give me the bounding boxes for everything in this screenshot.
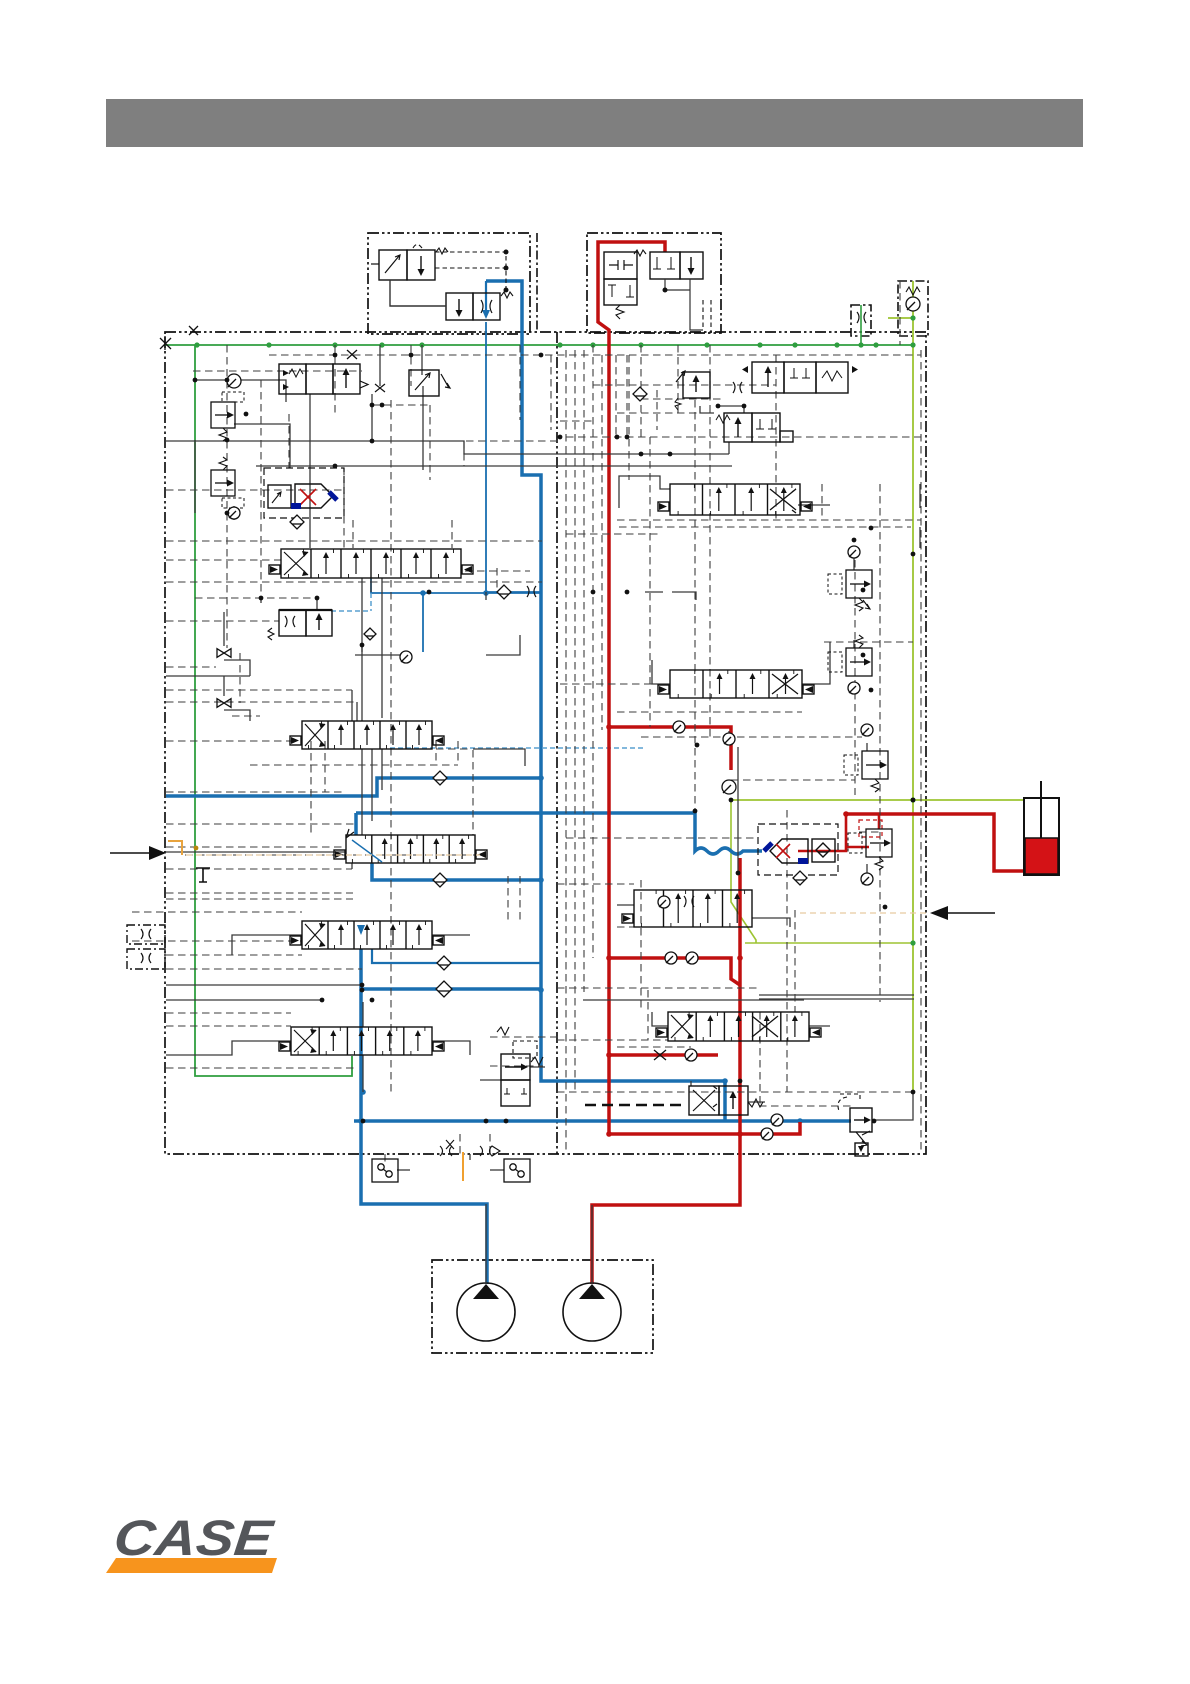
red return manifold bbox=[609, 1122, 800, 1134]
valve bank R2 bbox=[658, 670, 814, 698]
valve V5 comp bbox=[268, 610, 332, 640]
throttle bottom1 bbox=[440, 1140, 454, 1156]
node d junction bbox=[427, 590, 432, 595]
blue line row4a bbox=[361, 949, 487, 1284]
pilot bold dashed SV2 bbox=[585, 1104, 687, 1107]
relief valve RR3 bbox=[844, 751, 888, 792]
check mid1 bbox=[433, 771, 447, 785]
relief valve RT1 bbox=[675, 371, 710, 410]
check row4 red b bbox=[686, 952, 698, 964]
arrow marker right bbox=[948, 912, 995, 914]
wire dashed verticals bbox=[227, 281, 921, 1162]
red tank line bbox=[846, 814, 1024, 871]
blue line row3b bbox=[356, 813, 762, 854]
blue sense line bbox=[486, 322, 541, 592]
cartridge assembly L bbox=[264, 468, 344, 518]
valve bank R1 cross bbox=[770, 489, 796, 513]
blue line row3a bbox=[166, 778, 541, 796]
red cartridge links bbox=[798, 814, 879, 851]
tan dashed right bbox=[800, 912, 926, 914]
wire dashed horizontals bbox=[132, 355, 921, 1106]
check diamond c bbox=[364, 628, 376, 640]
pressure switch PS1 bbox=[372, 1159, 398, 1182]
valve bank R3 bbox=[622, 890, 752, 927]
bowtie cross top bbox=[347, 350, 357, 359]
check circle b1 bbox=[400, 651, 412, 663]
check mid2 bbox=[497, 585, 511, 599]
check on red row2 bbox=[673, 721, 685, 733]
check C row2 bbox=[723, 733, 735, 745]
valve bank R1 bbox=[658, 484, 812, 515]
relief dashed SV1 bbox=[497, 1027, 537, 1058]
small box orifice bbox=[851, 305, 871, 336]
relief valve RR4 bbox=[848, 829, 892, 870]
blue junction dots bbox=[358, 590, 803, 1124]
relief valve RR1 bbox=[828, 570, 872, 611]
check mid4 bbox=[437, 956, 451, 970]
tank body bbox=[1024, 781, 1059, 875]
tee symbol left bbox=[196, 868, 210, 882]
check diamond top bbox=[633, 387, 647, 401]
relief valve RB1 bbox=[838, 1094, 872, 1156]
partition stub box1 bbox=[536, 233, 538, 332]
orifice symbol bbox=[857, 312, 866, 323]
vent mark X2 bbox=[189, 326, 198, 335]
valve bank B2 bbox=[290, 721, 444, 749]
blue bank1 tap bbox=[371, 578, 541, 593]
green orifice stub bbox=[860, 305, 862, 345]
header gray title bar bbox=[106, 99, 1083, 147]
cartridge assembly R bbox=[758, 824, 838, 875]
blue dashed pilot 2 bbox=[390, 747, 646, 749]
blue arrow valve B bbox=[485, 281, 487, 310]
green pilot drop bbox=[731, 800, 913, 943]
small box breather bbox=[898, 281, 928, 336]
valve A pilot box1 bbox=[371, 248, 448, 280]
red main vertical bbox=[592, 858, 740, 1284]
pilot box top-right bbox=[587, 233, 721, 333]
pressure switch PS2 bbox=[504, 1159, 530, 1182]
relief valve RV2 bbox=[211, 457, 235, 496]
svg-text:CASE: CASE bbox=[111, 1510, 277, 1566]
valve bank R2 cross bbox=[772, 674, 798, 694]
blue line row3c bbox=[372, 863, 541, 880]
check mid5 bbox=[436, 981, 452, 997]
green breather line bbox=[888, 281, 913, 345]
breather check bbox=[906, 297, 920, 311]
valve V0 left bbox=[279, 364, 368, 394]
red junction dots bbox=[606, 724, 849, 1137]
valve bank R4 cross bbox=[752, 1016, 778, 1037]
pilot tan line bbox=[168, 841, 182, 855]
node dot grid bbox=[193, 353, 916, 1124]
valve bank B3 bbox=[334, 835, 487, 863]
check CR1 bbox=[848, 546, 860, 558]
port boxes left border bbox=[127, 925, 165, 969]
box2 node dot bbox=[663, 288, 668, 293]
blue return manifold bbox=[354, 1119, 851, 1123]
green rail right vertical bbox=[912, 345, 914, 1092]
blue line row4b bbox=[372, 949, 541, 963]
blue dashed pilot bbox=[331, 593, 371, 611]
orange sensor line bbox=[462, 1152, 464, 1181]
check valve CV1 bbox=[227, 374, 241, 388]
blue arrow bank4 bbox=[357, 925, 365, 935]
valve bank B5 bbox=[279, 1027, 444, 1055]
blue pilot line from box1 bbox=[486, 281, 725, 1121]
check row4 red a bbox=[665, 952, 677, 964]
solenoid valve SV1 bbox=[501, 1054, 530, 1106]
shutoff valve S2 bbox=[217, 699, 231, 708]
green supply rail top bbox=[165, 344, 913, 346]
port symbols left bbox=[141, 929, 151, 963]
red dashed pilot box bbox=[859, 820, 882, 837]
bowtie red row5 bbox=[654, 1050, 666, 1060]
box2 dashes bbox=[703, 300, 711, 332]
check bottom red bbox=[761, 1128, 773, 1140]
valve A dashed links bbox=[413, 245, 506, 291]
vent mark X1 bbox=[160, 336, 171, 350]
relief valve RR2 bbox=[828, 635, 872, 676]
orifice X mark bbox=[375, 384, 385, 392]
valve bank B4 bbox=[290, 921, 444, 949]
green tank return line bbox=[731, 799, 1024, 801]
partition border center bbox=[556, 332, 558, 1154]
red branch row2 bbox=[609, 727, 731, 770]
check red row5 bbox=[685, 1049, 697, 1061]
red branch row5 bbox=[609, 1053, 718, 1057]
throttle bottom2 bbox=[480, 1146, 500, 1156]
valve bank R3 check bbox=[658, 896, 670, 908]
check bottom blue bbox=[771, 1114, 783, 1126]
solenoid valve SV2 xvalve bbox=[689, 1086, 763, 1115]
valve bank R4 bbox=[656, 1012, 821, 1041]
valve bank B3 lever bbox=[352, 840, 382, 862]
valve VR1 comp bbox=[716, 413, 793, 442]
CASE logo orange bar bbox=[106, 1558, 277, 1573]
check CR3 bbox=[861, 724, 873, 736]
pilot box top-left bbox=[368, 233, 530, 334]
main manifold border bbox=[165, 332, 926, 1154]
box1 node dots bbox=[504, 250, 509, 293]
green junction dots bbox=[194, 315, 915, 945]
relief valve RV1 bbox=[211, 402, 235, 441]
shutoff valve S1 bbox=[217, 649, 231, 658]
pump P2 bbox=[563, 1283, 621, 1341]
check mid3 bbox=[433, 873, 447, 887]
orifice R0 bbox=[733, 382, 742, 393]
arrow marker left bbox=[110, 852, 150, 854]
red branch row4 bbox=[609, 958, 740, 985]
blue line row4c bbox=[362, 987, 541, 991]
check row4 top bbox=[722, 780, 736, 794]
valve B pilot box1 bbox=[390, 280, 513, 320]
orifice mid bbox=[527, 586, 536, 597]
check CR4 bbox=[861, 873, 873, 885]
valve D pilot box2 bbox=[634, 250, 703, 330]
red pilot loop box2 bbox=[598, 242, 665, 1134]
valve C pilot box2 bbox=[604, 252, 637, 319]
valve bank B1 bbox=[269, 549, 473, 578]
check valve CV2 bbox=[228, 507, 240, 519]
green rail left branch bbox=[195, 345, 352, 1076]
pump P1 bbox=[457, 1283, 515, 1341]
pump unit border bbox=[432, 1260, 653, 1353]
valve V0 right small bbox=[409, 370, 450, 396]
check CR2 bbox=[848, 682, 860, 694]
valve VR0 spool bbox=[742, 362, 858, 393]
wire gray connectors bbox=[166, 345, 920, 1284]
blue bank1 drop bbox=[422, 593, 424, 652]
